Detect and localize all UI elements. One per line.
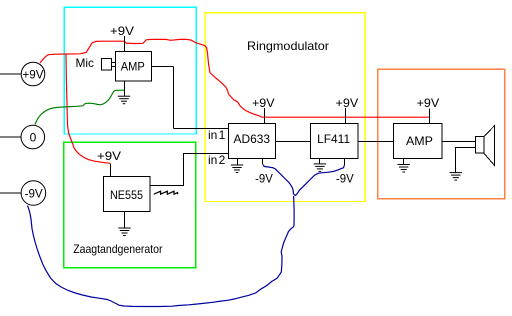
svg-text:0: 0	[30, 130, 37, 144]
svg-text:+9V: +9V	[252, 96, 275, 110]
svg-text:+9V: +9V	[336, 96, 359, 110]
svg-text:+9V: +9V	[110, 24, 134, 38]
svg-text:in1: in1	[208, 128, 226, 142]
svg-text:+9V: +9V	[97, 149, 121, 163]
svg-text:Mic: Mic	[76, 56, 95, 70]
svg-text:+9V: +9V	[417, 96, 440, 110]
svg-text:LF411: LF411	[317, 132, 350, 146]
svg-text:NE555: NE555	[110, 188, 143, 202]
svg-text:in2: in2	[208, 153, 226, 167]
svg-text:-9V: -9V	[25, 186, 43, 200]
svg-text:-9V: -9V	[336, 172, 354, 186]
svg-text:AD633: AD633	[234, 132, 271, 146]
svg-text:AMP: AMP	[406, 134, 433, 148]
svg-text:AMP: AMP	[121, 60, 145, 74]
svg-text:Ringmodulator: Ringmodulator	[247, 39, 329, 53]
svg-text:-9V: -9V	[255, 172, 273, 186]
svg-text:Zaagtandgenerator: Zaagtandgenerator	[73, 242, 162, 256]
svg-text:+9V: +9V	[23, 67, 44, 81]
